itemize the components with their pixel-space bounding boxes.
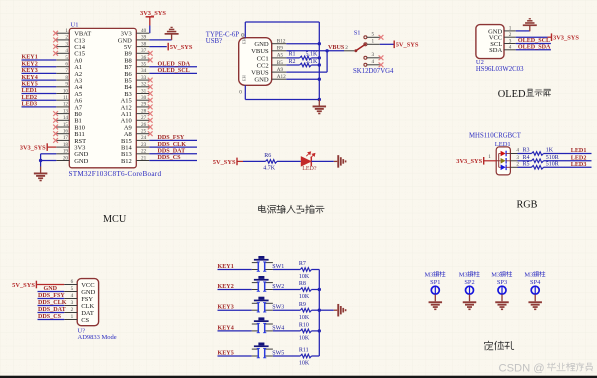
wire USB shell top bbox=[244, 22, 246, 38]
wire B9 VBUS bbox=[286, 50, 327, 52]
section label mounting holes bbox=[485, 341, 493, 350]
resistor R9 bbox=[300, 308, 311, 312]
S1 common contact bbox=[354, 49, 357, 52]
U1 pin 1 stub bbox=[56, 32, 69, 34]
no-connect X pin 29 bbox=[148, 105, 153, 110]
key GND bus vertical bbox=[318, 270, 320, 357]
wire net KEY4 bbox=[22, 79, 57, 81]
no-connect X on S1 bbox=[379, 55, 384, 60]
USB pin B12 stub bbox=[272, 43, 287, 45]
power input & indicator circuit bbox=[213, 152, 347, 172]
RGB LED chip red bbox=[501, 151, 506, 157]
svg-text:8: 8 bbox=[65, 75, 68, 81]
wire net KEY5 bbox=[22, 86, 57, 88]
resistor R8 bbox=[300, 288, 311, 292]
svg-text:19: 19 bbox=[63, 149, 69, 155]
wire net LED2 bbox=[544, 160, 592, 162]
wire net DDS_CS bbox=[38, 319, 65, 321]
svg-text:LED2: LED2 bbox=[571, 155, 587, 161]
wire net LED1 bbox=[22, 93, 57, 95]
U1 pin 15 stub bbox=[56, 126, 69, 128]
U1 pin 35 stub bbox=[136, 66, 149, 68]
U1 pin 24 stub bbox=[136, 139, 149, 141]
wire LED to ground bbox=[311, 160, 334, 162]
U1 pin 39 stub bbox=[136, 39, 149, 41]
resistor R5 bbox=[532, 166, 544, 170]
U1 pin 29 stub bbox=[136, 106, 149, 108]
wire KEY4 bbox=[218, 330, 252, 332]
svg-text:SP2: SP2 bbox=[464, 279, 474, 286]
U1 pin 8 stub bbox=[56, 79, 69, 81]
svg-text:GND: GND bbox=[81, 289, 95, 296]
wire USB shell bottom bbox=[244, 85, 246, 99]
wire R1 to GND rail bbox=[311, 57, 319, 59]
svg-text:5V_SYS: 5V_SYS bbox=[170, 44, 193, 51]
U1 pin 21 stub bbox=[136, 160, 149, 162]
svg-text:A9: A9 bbox=[277, 67, 284, 73]
svg-text:1: 1 bbox=[372, 39, 375, 45]
wire A9 VBUS bbox=[286, 71, 327, 73]
U1 pin 34 stub bbox=[136, 72, 149, 74]
svg-text:CSDN @: CSDN @ bbox=[499, 362, 545, 374]
svg-text:GND: GND bbox=[254, 77, 269, 84]
svg-text:MCU: MCU bbox=[103, 214, 127, 225]
svg-text:5: 5 bbox=[65, 55, 68, 61]
svg-text:A12: A12 bbox=[277, 74, 286, 80]
U? pin 3 stub bbox=[64, 305, 77, 307]
no-connect X pin 1 bbox=[53, 31, 58, 36]
U1 pin 3 stub bbox=[56, 46, 69, 48]
wire R6 to LED bbox=[277, 160, 301, 162]
wire net DDS_CS bbox=[149, 160, 197, 162]
svg-text:1: 1 bbox=[71, 314, 74, 320]
S1 pin 4 stub bbox=[367, 64, 380, 66]
no-connect X pin 28 bbox=[148, 111, 153, 116]
svg-text:5V_SYS: 5V_SYS bbox=[213, 159, 236, 166]
GND rail vertical bbox=[318, 22, 320, 100]
USB Type-C connector USB? bbox=[206, 22, 329, 114]
svg-text:M3: M3 bbox=[459, 272, 468, 279]
svg-text:R10: R10 bbox=[299, 323, 309, 329]
svg-text:VCC: VCC bbox=[81, 282, 94, 289]
wire pin19 GND bbox=[41, 153, 57, 155]
wire net KEY3 bbox=[22, 72, 57, 74]
mounting holes block bbox=[425, 271, 546, 310]
OLED display module U2 bbox=[476, 18, 579, 73]
svg-text:DDS_FSY: DDS_FSY bbox=[38, 293, 65, 299]
svg-text:R11: R11 bbox=[299, 348, 309, 354]
wire net KEY1 bbox=[22, 59, 57, 61]
wire pin39 GND bbox=[149, 39, 171, 41]
junction bbox=[318, 42, 321, 45]
LED indicator LED? bbox=[301, 157, 311, 166]
S1 contact pin 3 bbox=[364, 56, 367, 59]
svg-text:39: 39 bbox=[141, 35, 147, 41]
svg-text:4: 4 bbox=[372, 59, 375, 65]
svg-text:14: 14 bbox=[63, 115, 69, 121]
svg-text:SP4: SP4 bbox=[530, 279, 541, 286]
window bottom edge bar bbox=[0, 376, 597, 378]
wire bottom to ground bbox=[245, 99, 319, 101]
svg-text:40: 40 bbox=[141, 28, 147, 34]
svg-text:2: 2 bbox=[509, 32, 512, 38]
svg-text:2: 2 bbox=[345, 45, 348, 51]
no-connect X pin 3 bbox=[53, 44, 58, 49]
U1 pin 32 stub bbox=[136, 86, 149, 88]
U1 pin 2 stub bbox=[56, 39, 69, 41]
svg-text:3: 3 bbox=[509, 38, 512, 44]
U2 pin 3 stub bbox=[504, 43, 516, 45]
wire KEY1 bbox=[218, 269, 252, 271]
svg-text:3: 3 bbox=[372, 52, 375, 58]
svg-text:OLED_SCL: OLED_SCL bbox=[518, 38, 550, 44]
svg-text:17: 17 bbox=[63, 135, 69, 141]
U1 pin 13 stub bbox=[56, 113, 69, 115]
svg-text:LED3: LED3 bbox=[571, 162, 587, 168]
wire 3V3_SYS to RGB pin1 bbox=[484, 160, 496, 162]
svg-text:R6: R6 bbox=[264, 153, 271, 159]
RGB LED chip green bbox=[501, 158, 506, 164]
svg-text:KEY4: KEY4 bbox=[22, 75, 38, 81]
svg-text:10K: 10K bbox=[299, 315, 310, 321]
U1 pin 31 stub bbox=[136, 93, 149, 95]
svg-text:SDA: SDA bbox=[489, 47, 502, 54]
svg-text:SP3: SP3 bbox=[497, 279, 507, 286]
svg-text:B12: B12 bbox=[121, 158, 132, 165]
U1 pin 36 stub bbox=[136, 59, 149, 61]
U1 pin 14 stub bbox=[56, 119, 69, 121]
no-connect X pin 2 bbox=[53, 38, 58, 43]
wire top to GND rail bbox=[245, 21, 319, 23]
svg-text:10K: 10K bbox=[299, 361, 310, 367]
svg-text:18: 18 bbox=[63, 142, 69, 148]
U1 pin 4 stub bbox=[56, 52, 69, 54]
U2 pin 4 stub bbox=[504, 49, 516, 51]
wire net DDS_FSY bbox=[149, 139, 197, 141]
U2 pin 1 stub bbox=[504, 30, 516, 32]
wire 5V_SYS to VCC bbox=[37, 284, 65, 286]
svg-text:12: 12 bbox=[63, 102, 69, 108]
ground below U1 bbox=[34, 167, 48, 182]
svg-text:KEY2: KEY2 bbox=[22, 61, 38, 67]
svg-text:LED1: LED1 bbox=[22, 88, 38, 94]
svg-text:4.7K: 4.7K bbox=[263, 166, 276, 172]
junction VBUS tee bbox=[325, 49, 328, 52]
wire net KEY2 bbox=[22, 66, 57, 68]
svg-text:U1: U1 bbox=[71, 21, 79, 28]
no-connect X pin 33 bbox=[148, 78, 153, 83]
wire S1 to 5V_SYS bbox=[380, 43, 394, 45]
RGB LED MHS110CRGBCT LED1 bbox=[456, 133, 591, 175]
svg-text:USB?: USB? bbox=[206, 38, 222, 45]
svg-text:CLK: CLK bbox=[81, 303, 94, 310]
wire to R3 bbox=[518, 153, 532, 155]
push button SW1 bbox=[252, 256, 273, 271]
svg-text:VBUS: VBUS bbox=[251, 48, 269, 55]
wire GND net bbox=[38, 291, 65, 293]
svg-text:30: 30 bbox=[141, 95, 147, 101]
resistor R1 bbox=[300, 56, 312, 60]
svg-text:10K: 10K bbox=[299, 336, 310, 342]
wire CC1 to R1 bbox=[286, 57, 299, 59]
svg-text:B12: B12 bbox=[277, 39, 286, 45]
svg-text:VBUS: VBUS bbox=[251, 70, 269, 77]
wire SW4 to R10 bbox=[273, 330, 300, 332]
svg-text:R2: R2 bbox=[289, 59, 296, 65]
wire R9 to bus bbox=[312, 309, 320, 311]
U? pin 6 stub bbox=[64, 284, 77, 286]
wire net OLED_SDA bbox=[149, 66, 197, 68]
S1 contact pin 1 bbox=[364, 43, 367, 46]
svg-text:20: 20 bbox=[63, 155, 69, 161]
ground right of LED bbox=[334, 155, 347, 168]
AD9833 module U? bbox=[12, 279, 117, 342]
U1 pin 5 stub bbox=[56, 59, 69, 61]
AD9833 body bbox=[77, 279, 98, 326]
svg-text:M3: M3 bbox=[491, 272, 500, 279]
ground under SP1 bbox=[434, 294, 436, 301]
U1 pin 16 stub bbox=[56, 133, 69, 135]
svg-text:2: 2 bbox=[65, 35, 68, 41]
wire net DDS_CLK bbox=[38, 305, 65, 307]
wire 3V3_SYS to pin 18 bbox=[48, 146, 57, 148]
svg-text:DDS_DAT: DDS_DAT bbox=[38, 307, 66, 313]
svg-text:LED3: LED3 bbox=[22, 102, 38, 108]
svg-text:R8: R8 bbox=[299, 281, 306, 287]
no-connect X pin 4 bbox=[53, 51, 58, 56]
wire A12 GND bbox=[286, 78, 319, 80]
push button SW5 bbox=[252, 343, 273, 358]
svg-text:VBUS: VBUS bbox=[328, 45, 345, 51]
key buttons block bbox=[218, 256, 347, 367]
RGB pin 2 stub bbox=[510, 166, 517, 168]
wire SW2 to R8 bbox=[273, 289, 300, 291]
wire net DDS_DAT bbox=[149, 153, 197, 155]
ground under SP4 bbox=[534, 294, 536, 301]
svg-text:HS96L03W2C03: HS96L03W2C03 bbox=[476, 66, 524, 73]
U1 pin 38 stub bbox=[136, 46, 149, 48]
svg-text:27: 27 bbox=[141, 115, 147, 121]
svg-text:MHS110CRGBCT: MHS110CRGBCT bbox=[469, 133, 522, 140]
svg-text:R4: R4 bbox=[523, 155, 530, 161]
power port 5V_SYS bbox=[12, 281, 36, 289]
power port 5V_SYS bbox=[168, 43, 193, 51]
U1 pin 40 stub bbox=[136, 32, 149, 34]
svg-text:KEY5: KEY5 bbox=[22, 82, 38, 88]
no-connect X pin 13 bbox=[53, 111, 58, 116]
svg-text:KEY1: KEY1 bbox=[22, 55, 38, 61]
S1 pin 2 stub bbox=[344, 50, 354, 52]
ground right of U1 pin39 bbox=[165, 27, 179, 40]
svg-text:LED2: LED2 bbox=[22, 95, 38, 101]
wire net LED2 bbox=[22, 99, 57, 101]
U1 pin 9 stub bbox=[56, 86, 69, 88]
wire SW5 to R11 bbox=[273, 355, 300, 357]
wire net DDS_DAT bbox=[38, 312, 65, 314]
svg-text:1: 1 bbox=[509, 26, 512, 32]
svg-text:10K: 10K bbox=[299, 274, 310, 280]
svg-text:DDS_FSY: DDS_FSY bbox=[158, 135, 185, 141]
svg-text:CC2: CC2 bbox=[257, 62, 269, 69]
no-connect X pin 17 bbox=[53, 138, 58, 143]
RGB LED body bbox=[496, 147, 510, 175]
svg-text:11: 11 bbox=[63, 95, 68, 101]
U1 pin 20 stub bbox=[56, 160, 69, 162]
wire net LED3 bbox=[22, 106, 57, 108]
RGB common anode bracket bbox=[496, 154, 499, 168]
power port 3V3_SYS bbox=[456, 157, 483, 165]
wire SW1 to R7 bbox=[273, 269, 300, 271]
wire pin38 5V bbox=[149, 46, 167, 48]
U1 pin 12 stub bbox=[56, 106, 69, 108]
power port 3V3_SYS (top of U1) bbox=[146, 16, 154, 18]
mounting hole SP2 symbol bbox=[466, 286, 474, 294]
no-connect X pin 26 bbox=[148, 125, 153, 130]
RGB LED chip blue bbox=[501, 165, 506, 171]
svg-text:510R: 510R bbox=[546, 155, 559, 161]
svg-text:EH: EH bbox=[242, 37, 247, 44]
USB pin A9 stub bbox=[272, 71, 287, 73]
junction bbox=[318, 63, 321, 66]
svg-text:4: 4 bbox=[516, 148, 519, 154]
MCU body U1 bbox=[69, 28, 136, 167]
power stem bbox=[548, 36, 552, 38]
USB pin A5 stub bbox=[272, 57, 287, 59]
svg-text:13: 13 bbox=[63, 108, 69, 114]
svg-text:38: 38 bbox=[141, 41, 147, 47]
svg-text:GND: GND bbox=[74, 158, 88, 165]
wire B12 GND bbox=[286, 43, 319, 45]
svg-text:GND: GND bbox=[254, 41, 269, 48]
junction bbox=[318, 329, 321, 332]
push button SW3 bbox=[252, 297, 273, 312]
resistor R6 bbox=[266, 160, 278, 164]
svg-text:LED?: LED? bbox=[302, 166, 317, 172]
svg-text:DDS_DAT: DDS_DAT bbox=[158, 149, 186, 155]
svg-text:24: 24 bbox=[141, 135, 147, 141]
U2 pin 2 stub bbox=[504, 36, 516, 38]
wire to R4 bbox=[518, 160, 532, 162]
wire net OLED_SCL bbox=[149, 72, 197, 74]
U? pin 5 stub bbox=[64, 291, 77, 293]
wire bus to ground bbox=[319, 309, 334, 311]
wire SW3 to R9 bbox=[273, 309, 300, 311]
svg-text:3: 3 bbox=[516, 155, 519, 161]
wire U2 VCC bbox=[516, 36, 548, 38]
svg-text:5: 5 bbox=[372, 32, 375, 38]
svg-text:35: 35 bbox=[141, 62, 147, 68]
wire OLED_SCL bbox=[516, 43, 551, 45]
svg-text:OLED_SCL: OLED_SCL bbox=[158, 68, 190, 74]
ground under SP3 bbox=[501, 294, 503, 301]
S1 contact pin 5 bbox=[364, 36, 367, 39]
svg-text:R1: R1 bbox=[289, 52, 296, 58]
U? pin 1 stub bbox=[64, 319, 77, 321]
svg-text:36: 36 bbox=[141, 55, 147, 61]
svg-text:3: 3 bbox=[65, 41, 68, 47]
svg-text:R5: R5 bbox=[523, 162, 530, 168]
svg-text:OLED_SDA: OLED_SDA bbox=[518, 44, 551, 50]
svg-text:2: 2 bbox=[516, 161, 519, 167]
svg-text:EH: EH bbox=[242, 74, 247, 81]
S1 pin 5 stub bbox=[367, 36, 380, 38]
svg-text:29: 29 bbox=[141, 102, 147, 108]
no-connect X pin 32 bbox=[148, 84, 153, 89]
power stem bbox=[237, 160, 243, 162]
U1 pin 10 stub bbox=[56, 93, 69, 95]
U1 pin 37 stub bbox=[136, 52, 149, 54]
svg-text:DDS_CS: DDS_CS bbox=[158, 155, 182, 161]
U1 pin 25 stub bbox=[136, 133, 149, 135]
wire KEY5 bbox=[218, 355, 252, 357]
U1 pin 11 stub bbox=[56, 99, 69, 101]
svg-text:25: 25 bbox=[141, 129, 147, 135]
svg-text:RGB: RGB bbox=[517, 200, 538, 211]
svg-text:28: 28 bbox=[141, 108, 147, 114]
wire R8 to bus bbox=[312, 289, 320, 291]
U? pin 2 stub bbox=[64, 312, 77, 314]
svg-text:M3: M3 bbox=[425, 272, 434, 279]
wire net DDS_CLK bbox=[149, 146, 197, 148]
U1 pin 6 stub bbox=[56, 66, 69, 68]
junction bbox=[318, 56, 321, 59]
svg-text:B5: B5 bbox=[277, 60, 283, 66]
svg-text:1: 1 bbox=[488, 154, 491, 160]
svg-text:3V3_SYS: 3V3_SYS bbox=[553, 35, 579, 42]
mounting hole SP1 symbol bbox=[431, 286, 439, 294]
no-connect X pin 31 bbox=[148, 91, 153, 96]
svg-text:510R: 510R bbox=[546, 162, 559, 168]
U1 pin 26 stub bbox=[136, 126, 149, 128]
svg-text:OLED: OLED bbox=[498, 89, 526, 100]
slide switch S1 SK12D07VG4 bbox=[327, 29, 419, 75]
wire CC2 to R2 bbox=[286, 64, 299, 66]
no-connect X on S1 bbox=[379, 62, 384, 67]
svg-text:3V3_SYS: 3V3_SYS bbox=[140, 10, 166, 17]
resistor R4 bbox=[532, 159, 544, 163]
svg-text:R9: R9 bbox=[299, 302, 306, 308]
no-connect X pin 36 bbox=[148, 58, 153, 63]
junction bbox=[318, 98, 321, 101]
resistor R10 bbox=[300, 329, 311, 333]
U1 pin 28 stub bbox=[136, 113, 149, 115]
U1 pin 7 stub bbox=[56, 72, 69, 74]
svg-text:34: 34 bbox=[141, 68, 147, 74]
VBUS rail vertical bbox=[326, 51, 328, 72]
power port 5V_SYS bbox=[394, 41, 419, 49]
svg-text:1K: 1K bbox=[546, 148, 554, 154]
MCU U1 STM32F103C8T6 CoreBoard bbox=[20, 10, 197, 181]
OLED body U2 bbox=[476, 25, 504, 59]
U1 pin 27 stub bbox=[136, 119, 149, 121]
svg-text:M3: M3 bbox=[524, 272, 533, 279]
S1 lever bbox=[356, 44, 366, 51]
wire R10 to bus bbox=[312, 330, 320, 332]
no-connect X pin 14 bbox=[53, 118, 58, 123]
power stem 3V3_SYS bbox=[149, 17, 151, 26]
wire pin40 to 3V3_SYS bbox=[149, 26, 151, 34]
USB pin A12 stub bbox=[272, 78, 287, 80]
USB pin B9 stub bbox=[272, 50, 287, 52]
U1 pin 17 stub bbox=[56, 139, 69, 141]
svg-text:STM32F103C8T6-CoreBoard: STM32F103C8T6-CoreBoard bbox=[69, 170, 162, 178]
S1 contact pin 4 bbox=[364, 63, 367, 66]
svg-text:CC1: CC1 bbox=[257, 55, 269, 62]
svg-text:23: 23 bbox=[141, 142, 147, 148]
mounting hole SP3 symbol bbox=[498, 286, 506, 294]
wire KEY2 bbox=[218, 289, 252, 291]
U1 pin 18 stub bbox=[56, 146, 69, 148]
